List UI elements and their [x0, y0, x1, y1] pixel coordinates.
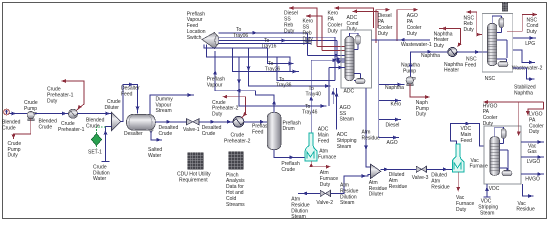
energy stream ADC Cond Duty wire [353, 11, 378, 28]
svg-text:Duty: Duty [378, 31, 389, 37]
stream Atm Residue Dilution Steam wire into Valve-2 [298, 192, 320, 194]
logical operation SET-1 (green diamond) [91, 134, 101, 146]
svg-text:Tray16: Tray16 [261, 44, 277, 50]
svg-text:NSC: NSC [485, 76, 496, 82]
energy stream Diesel SS Reb Duty wire [289, 8, 317, 47]
wire switch lower wrap to Tray46 [207, 45, 291, 72]
energy stream Crude Preheater-1 Duty wire [62, 81, 85, 111]
svg-text:Duty: Duty [303, 36, 314, 42]
svg-text:Requirement: Requirement [179, 177, 208, 183]
stream Naphtha wire pump to Naphtha Heater [411, 52, 449, 77]
svg-text:HVGO: HVGO [525, 177, 540, 183]
svg-text:Vapour: Vapour [207, 82, 223, 88]
svg-text:Preheater-2: Preheater-2 [224, 139, 251, 145]
reboiler NSC [498, 62, 508, 67]
svg-text:Valve-1: Valve-1 [183, 127, 200, 133]
heat exchanger Naphtha Heater [448, 47, 457, 56]
svg-text:Duty: Duty [407, 31, 418, 37]
svg-text:Valve-3: Valve-3 [412, 175, 429, 181]
svg-text:Duty: Duty [416, 112, 427, 118]
svg-text:Feed: Feed [121, 92, 133, 98]
fired heater Atm Furnace [305, 133, 317, 161]
energy stream HVGO PA Cooler Duty wire [484, 101, 544, 103]
svg-text:Wastewater-1: Wastewater-1 [401, 42, 432, 48]
svg-text:Steam: Steam [480, 210, 494, 216]
svg-text:AGO: AGO [387, 140, 398, 146]
svg-text:Crude: Crude [2, 125, 16, 131]
maroon reboiler duty feeds into ADC column [317, 46, 349, 48]
stream Naphtha wire to pump [379, 84, 405, 86]
svg-text:Duty: Duty [47, 98, 58, 104]
heat exchanger Crude Preheater-1 [68, 109, 77, 118]
svg-text:Duty: Duty [464, 27, 475, 33]
svg-text:Diesel: Diesel [386, 123, 400, 129]
energy stream Naph Pump Duty wire [410, 84, 430, 97]
svg-text:Naphtha: Naphtha [385, 85, 404, 91]
wire bundle line y43.5 joining main feed riser [219, 43, 312, 45]
tower ADC column [345, 36, 354, 80]
stream Wastewater-2 wire [513, 50, 535, 62]
condenser NSC [499, 18, 504, 28]
column sub-flowsheet box VDC [484, 126, 521, 184]
stream Kero product wire [379, 100, 401, 102]
stream Diluted Atm Residue wire to Valve-3 [381, 168, 417, 170]
svg-text:Wastewater-2: Wastewater-2 [512, 66, 543, 72]
stream LPG wire [513, 37, 536, 39]
reboiler ADC [356, 79, 366, 84]
svg-text:Duty: Duty [483, 121, 494, 127]
pump Naphtha Pump [407, 84, 414, 86]
svg-text:Furnace: Furnace [318, 155, 337, 161]
feed stream Blended Crude inlet icon [4, 109, 10, 115]
stream HVGO wire [521, 173, 544, 175]
svg-text:Duty: Duty [284, 28, 295, 34]
stream Vac Gas wire [521, 141, 544, 143]
mixer Crude Diluter [112, 112, 121, 130]
energy stream NSC Cond Duty wire [507, 15, 537, 32]
svg-text:Duty: Duty [8, 153, 19, 159]
svg-text:LVGO: LVGO [527, 159, 541, 165]
svg-text:Tray46: Tray46 [302, 110, 318, 116]
stream Preflash Crude wire drum bottom to Atm Furnace [274, 150, 305, 158]
wire bundle line to riser x337 [336, 41, 338, 62]
energy stream AGO PA Cooler Duty wire [397, 10, 418, 41]
wire switch to Tray06 [219, 32, 308, 34]
stream Diluted Atm Residue wire Valve-3 to Vac Furnace [427, 168, 453, 170]
wire feed to Crude Pump [9, 113, 27, 115]
mini workbook table icon above NSC [502, 2, 507, 11]
svg-text:Duty: Duty [434, 43, 445, 49]
svg-text:Duty: Duty [529, 129, 540, 135]
stream Crude Dilution Water wire into diluter [106, 127, 112, 162]
workbook table Pinch Analysis icon [229, 152, 244, 170]
valve Valve-2 [320, 190, 330, 196]
mixer Atm Residue Diluter [370, 164, 380, 179]
svg-text:Naphtha: Naphtha [421, 53, 440, 59]
svg-text:Crude: Crude [281, 167, 295, 173]
svg-text:Tray06: Tray06 [233, 33, 249, 39]
energy stream Vac Furnace Duty wire [457, 172, 459, 192]
valve Valve-3 [416, 166, 426, 172]
stream AGO SS Steam wire into ADC bottom [332, 88, 334, 104]
svg-text:Steam: Steam [291, 214, 305, 220]
stream dilution steam wire Valve-2 to diluter [331, 175, 371, 194]
svg-text:Feed: Feed [252, 130, 264, 136]
svg-text:Stream: Stream [156, 108, 172, 114]
column sub-flowsheet box NSC [482, 14, 513, 73]
stream Desalter Feed wire diluter to Desalter [121, 85, 138, 122]
energy stream Crude Pump Duty wire [14, 119, 31, 139]
vessel Desalter (horizontal drum) [126, 115, 155, 131]
wire switch to Tray16 [219, 40, 287, 42]
svg-text:Duty: Duty [212, 112, 223, 118]
svg-text:VDC: VDC [489, 186, 500, 192]
svg-text:Feed: Feed [461, 138, 473, 144]
stream NSC Feed wire heater to NSC box [457, 51, 482, 53]
svg-text:Residue: Residue [362, 136, 381, 142]
wire feed into ADC box at y58.8 [335, 58, 345, 60]
stream VDC Main Feed wire furnace to VDC [451, 124, 484, 146]
energy stream Kero SS Reb Duty wire [306, 16, 322, 51]
stream Stabilized Naphtha wire [513, 68, 535, 79]
stream Desalted Crude wire to Valve-1 [155, 121, 186, 123]
selector Preflash Vapour Feed Location Switch icon [202, 33, 218, 49]
stream Preflash Feed wire to Preflash Drum [244, 121, 267, 123]
svg-text:Streams: Streams [226, 202, 245, 208]
svg-text:Heater: Heater [444, 68, 459, 74]
heat exchanger Crude Preheater-2 [233, 116, 244, 127]
tower NSC column [488, 23, 497, 65]
svg-text:Water: Water [93, 176, 106, 182]
column sub-flowsheet box ADC [341, 30, 372, 88]
stream Atm Residue wire ADC bottom to Atm Residue Diluter [366, 88, 370, 167]
reboiler VDC [502, 171, 512, 176]
wire NSC feed inside box [482, 51, 487, 53]
pump Crude Pump [28, 119, 35, 121]
svg-text:Duty: Duty [456, 207, 467, 213]
workbook table CDU Hot Utility Requirement icon [188, 153, 204, 170]
energy stream Atm Furnace Duty wire [311, 161, 330, 167]
svg-text:Tray36: Tray36 [276, 83, 292, 89]
wire pump to Crude Preheater-1 / label Blended Crude [34, 113, 68, 115]
svg-text:Residue: Residue [516, 207, 535, 213]
svg-text:Tray40: Tray40 [306, 92, 322, 98]
svg-text:Diluter: Diluter [105, 105, 120, 111]
svg-text:Steam: Steam [337, 144, 351, 150]
svg-text:Duty: Duty [328, 28, 339, 34]
svg-text:Residue: Residue [431, 184, 450, 190]
stream AGO product wire [379, 137, 399, 139]
svg-text:Feed: Feed [318, 139, 330, 145]
energy stream Kero PA Cooler Duty wire [335, 8, 374, 28]
stream Salted Water wire [149, 130, 154, 133]
svg-text:Valve-2: Valve-2 [316, 200, 333, 206]
product bus vertical wire [378, 40, 380, 138]
stream Preflash Vapour wire drum top to switch [215, 51, 274, 112]
svg-text:Crude: Crude [39, 125, 53, 131]
svg-text:Crude: Crude [202, 131, 216, 137]
wire Tray06 feed into ADC box [308, 54, 346, 56]
wire ADC Main Feed from Atm Furnace to column [311, 60, 345, 133]
wire branch y72 [233, 48, 300, 72]
svg-text:Furnace: Furnace [470, 164, 489, 170]
wire Tray feed entering ADC box bottom riser [329, 67, 345, 69]
stream Vac Residue wire [523, 184, 534, 196]
wire bundle line y37 to box riser [219, 36, 336, 38]
svg-text:Drum: Drum [283, 126, 295, 132]
svg-text:Crude: Crude [159, 131, 173, 137]
condenser VDC [501, 129, 506, 139]
vessel Preflash Drum (vertical) [267, 112, 281, 149]
energy stream LVGO PA Cooler Duty wire [528, 102, 544, 116]
svg-text:Naphtha: Naphtha [514, 91, 533, 97]
svg-text:Water: Water [148, 153, 161, 159]
svg-text:Residue: Residue [389, 184, 408, 190]
svg-text:Crude: Crude [86, 124, 100, 130]
svg-text:Pump: Pump [24, 106, 37, 112]
stream LVGO wire [521, 156, 544, 158]
svg-text:Preheater-1: Preheater-1 [58, 127, 85, 133]
small valve on Tray06 riser near column [307, 33, 309, 56]
stream Desalted Crude wire Valve-1 to Crude Preheater-2 [199, 121, 233, 123]
svg-text:Duty: Duty [527, 29, 538, 35]
stream Dummy Vapour Stream wire [150, 95, 194, 114]
energy stream Diesel PA Cooler Duty wire [376, 10, 390, 43]
svg-text:Steam: Steam [340, 117, 354, 123]
energy stream NSC Reb Duty wire [467, 12, 483, 35]
fired heater Vac Furnace [452, 144, 464, 172]
condenser ADC [356, 35, 361, 45]
energy stream Naphtha Heater Duty wire [439, 29, 461, 45]
svg-text:Feed: Feed [465, 62, 477, 68]
valve Valve-1 [187, 119, 200, 125]
svg-text:Pump: Pump [403, 68, 416, 74]
svg-text:Kero: Kero [391, 102, 402, 108]
stream Wastewater-1 wire [372, 39, 431, 41]
stream Diesel product wire [379, 119, 401, 121]
energy stream Crude Preheater-2 Duty wire [223, 97, 246, 118]
svg-text:Steam: Steam [340, 200, 354, 206]
svg-text:Diluter: Diluter [369, 192, 384, 198]
svg-text:Desalter: Desalter [124, 131, 143, 137]
svg-text:Gas: Gas [528, 149, 538, 155]
wire branch to Tray36 [277, 57, 335, 80]
wire Crude Preheater-1 to Crude Diluter / label Blended Crude [78, 113, 112, 115]
tower VDC column [490, 137, 500, 176]
svg-text:SET-1: SET-1 [88, 149, 102, 155]
svg-text:ADC: ADC [344, 89, 355, 95]
wire switch lower wrap to Tray40 [204, 45, 268, 49]
svg-text:Switch: Switch [187, 35, 202, 41]
wire branch to Tray26 [268, 48, 294, 64]
stream ADC Stripping Steam wire into ADC bottom [336, 88, 338, 129]
svg-text:LPG: LPG [525, 41, 535, 47]
stream VDC Stripping Steam wire [486, 184, 488, 197]
svg-text:Duty: Duty [320, 182, 331, 188]
